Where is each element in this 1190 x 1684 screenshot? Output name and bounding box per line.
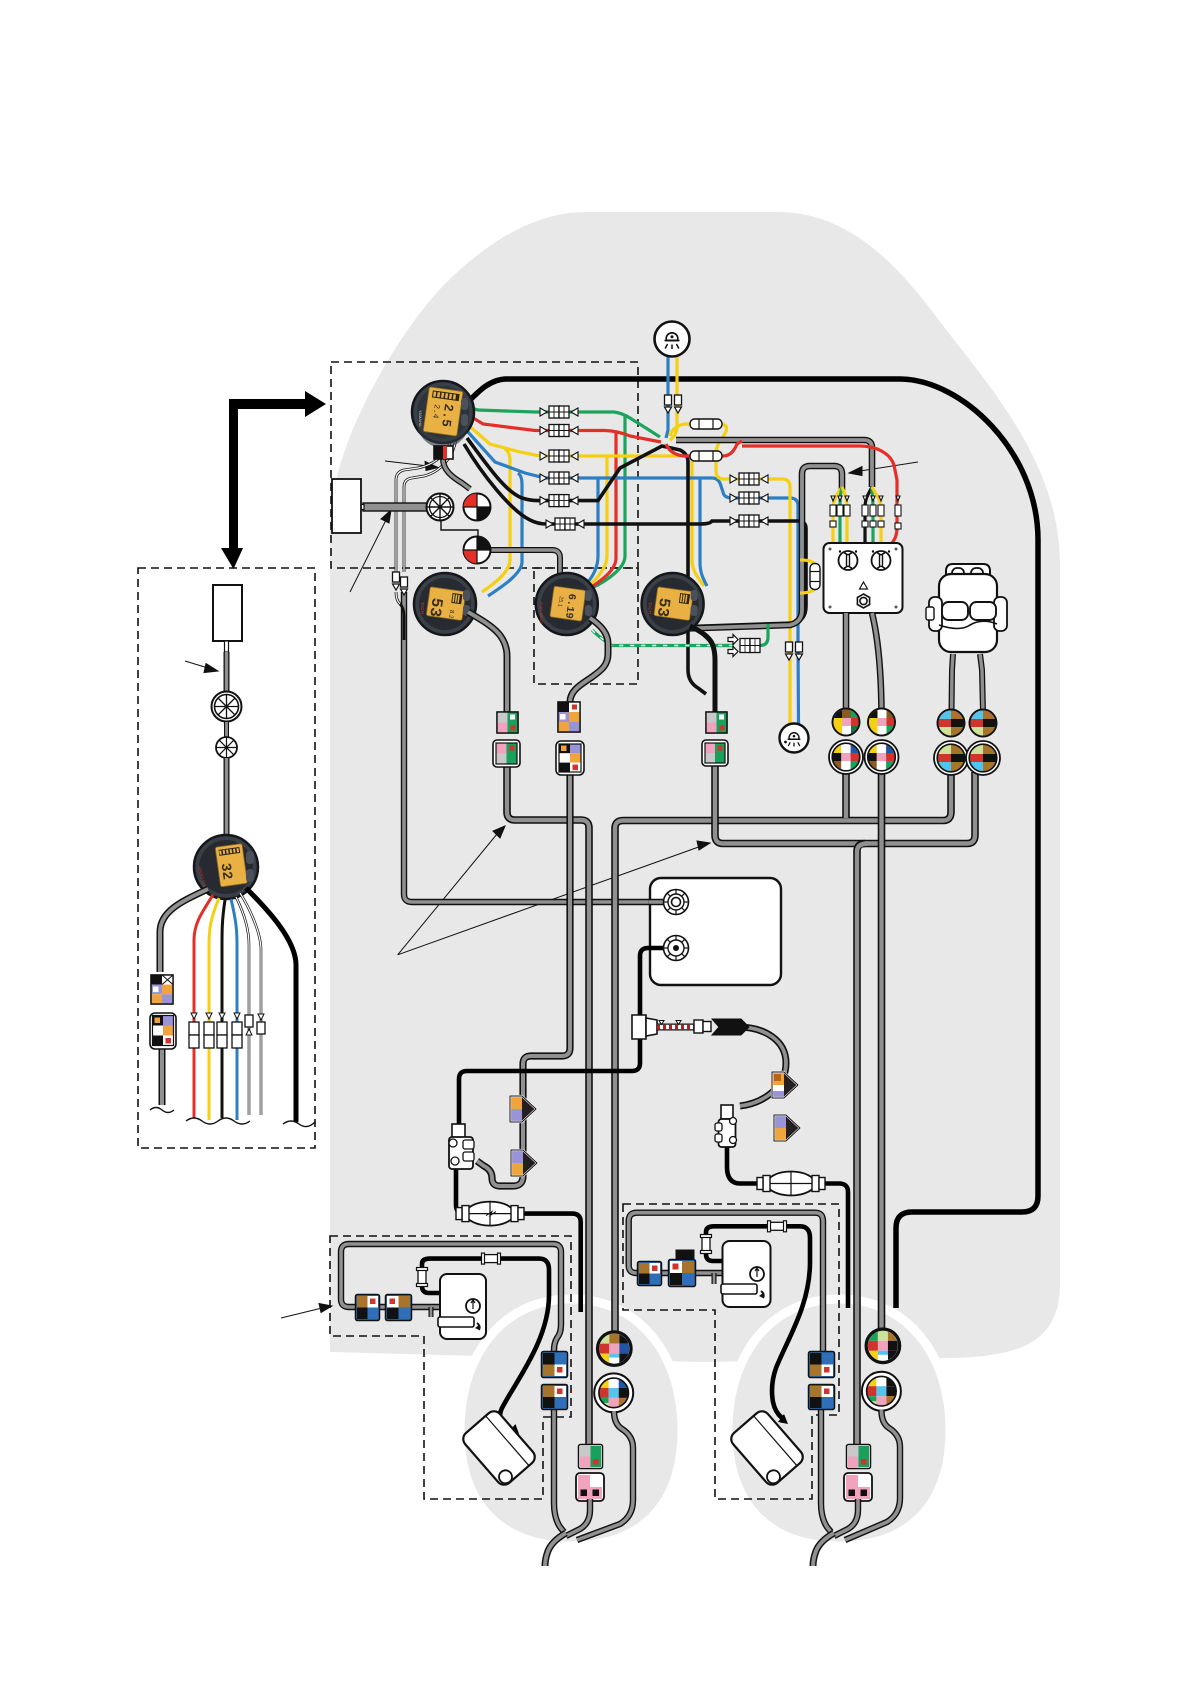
oil line connector horizontal (right) xyxy=(768,1221,787,1232)
gray wire from fuse holder to fuel gauge xyxy=(490,550,560,576)
right water separating fuel filter xyxy=(715,1105,737,1147)
left oil tank harness loop xyxy=(341,1244,561,1352)
annotation arrow to left oil box xyxy=(281,1308,322,1318)
left engine round connector R2 (ringed) xyxy=(594,1373,633,1412)
striped fuel hose xyxy=(657,1020,711,1033)
right R2 harness to bundle xyxy=(845,1410,900,1540)
fuses on main switch fans xyxy=(830,496,901,529)
annotation arrows to engine harnesses xyxy=(398,834,497,955)
light switch 1 xyxy=(655,322,690,357)
left oil tank xyxy=(431,1274,486,1339)
svg-text:53: 53 xyxy=(425,597,445,619)
triangle pointer B (purple/orange) xyxy=(511,1150,537,1176)
gray harness from gauge xyxy=(160,889,208,972)
detail connector block A xyxy=(151,975,173,1004)
tachometer 2 gauge xyxy=(642,573,704,635)
gauge representation white rect xyxy=(213,585,242,641)
wire blue drop to fuel gauge xyxy=(586,478,598,584)
fuel line: left filter to primer bulb to engine stub xyxy=(456,1168,581,1312)
oil line connector horizontal (left) xyxy=(482,1253,501,1264)
left R2 harness to bundle xyxy=(577,1411,633,1540)
left engine bulge xyxy=(460,1299,682,1546)
fuse bullet on light switch yellow wire xyxy=(675,395,682,413)
stop-switch-1 harness run to left engine (C3 to R1) xyxy=(615,770,951,1334)
left SQP harness to bundle xyxy=(566,1499,590,1536)
yellow loop through vertical capsule at main switch xyxy=(800,560,815,593)
right battery xyxy=(728,1408,806,1488)
bullet connector on speedometer sender wire 2 xyxy=(401,577,408,595)
tachometer2 harness run (gauge3 via y843 corridor, C4 branch) to right engine xyxy=(715,764,975,844)
left oil connector SQ2 xyxy=(386,1295,412,1321)
stem xyxy=(225,641,229,652)
fuel gauge harness to connector xyxy=(570,618,608,702)
main switch right fan: black green yellow red xyxy=(865,487,872,544)
colored wires fan from gauge xyxy=(194,888,296,1122)
multifunction gauge detail dashed box xyxy=(138,568,315,1148)
fuse bullet on light switch 2 blue wire xyxy=(796,642,803,660)
fuel Y joint to engines xyxy=(712,1019,749,1035)
wire yellow drop to fuel gauge xyxy=(588,456,607,586)
right oil tank xyxy=(714,1241,771,1307)
fuel line: right filter to primer bulb to engine stub xyxy=(727,1147,848,1308)
fuse holder big xyxy=(212,692,242,722)
left engine square connectors SQG/SQP xyxy=(579,1445,603,1469)
fuse holder with X (speedo feed) xyxy=(427,494,454,521)
wire blue continuation to light switch 2 xyxy=(700,478,799,724)
left battery xyxy=(460,1408,538,1488)
right primer bulb xyxy=(757,1172,825,1196)
triangle pointer A (orange/purple) xyxy=(510,1096,536,1122)
left engine bundle xyxy=(545,1533,566,1566)
capsule connector at main switch xyxy=(810,564,820,590)
fuse holder small xyxy=(216,737,237,758)
big black arrow console-to-detail xyxy=(221,391,326,569)
main-switch-1 harness (C1 stub to corridor) xyxy=(842,770,850,818)
yellow capsule festoon xyxy=(670,424,723,436)
right engine bulge xyxy=(728,1299,950,1546)
gray tube xyxy=(224,652,230,692)
wire to gauge xyxy=(224,758,230,838)
wire green (speedo row to convergence) xyxy=(471,408,660,437)
helm round connector C1 mate xyxy=(829,740,863,774)
oil line connector vertical (right) xyxy=(701,1235,712,1254)
stop switch wires xyxy=(952,654,954,712)
left oil connectors SQ3/SQ4 on down harness xyxy=(542,1352,568,1378)
tach2 black harness down xyxy=(690,626,715,714)
right oil connector SQ1b xyxy=(638,1262,662,1286)
right engine round connector R1b xyxy=(865,1328,900,1363)
wavy break lines xyxy=(150,1108,315,1127)
green wire double bullet connector xyxy=(728,635,760,657)
bracket between fuse holders xyxy=(441,521,478,536)
tachometer 1 gauge xyxy=(414,573,476,635)
fuel gauge connector pair xyxy=(558,702,580,732)
capsule connector on yellow extension xyxy=(690,419,722,429)
triangle pointer C (orange/white/purple) xyxy=(772,1072,798,1098)
fuel pickup fitting xyxy=(664,936,689,961)
tachometer1 harness from gauge xyxy=(468,612,507,714)
wire yellow drop to tach1 xyxy=(482,449,510,592)
svg-text:8.2: 8.2 xyxy=(447,610,454,620)
wire yellow row xyxy=(468,425,692,456)
speedometer fuel sender wire (gray) xyxy=(404,592,672,902)
red wire from harness right side down to main switch xyxy=(742,446,897,544)
fuse bullet on light switch 2 yellow wire xyxy=(786,642,793,660)
boat hull silhouette xyxy=(330,212,1060,1362)
left primer bulb xyxy=(456,1202,524,1226)
stop switch round connector C3 mate xyxy=(934,741,968,775)
main switch harness drops xyxy=(843,613,850,712)
right oil tank dashed box xyxy=(623,1204,839,1499)
speedometer buzzer xyxy=(434,446,453,459)
helm round connector C1 (main sw 1) xyxy=(833,709,861,736)
svg-text:TACH: TACH xyxy=(420,602,425,614)
left water separating fuel filter xyxy=(449,1124,474,1169)
wire red drop to fuel gauge xyxy=(590,432,616,588)
helm round connector C2 mate xyxy=(865,740,899,774)
fuel tank xyxy=(650,878,781,985)
pitot white box xyxy=(332,479,361,533)
speedometer gauge xyxy=(412,381,474,448)
wire yellow drop to tach2 + loop to bullet row xyxy=(692,456,704,586)
wire black row 1 (to convergence chevron) xyxy=(467,438,706,694)
bullet connector on speedometer sender wire 1 xyxy=(393,572,400,590)
right oil tank harness loop xyxy=(629,1213,823,1352)
left oil line black with battery cable xyxy=(422,1259,549,1430)
wire blue drop to tach2 xyxy=(700,478,707,586)
right oil connectors SQ3b/SQ4b xyxy=(809,1352,835,1378)
left oil connector SQ1 xyxy=(356,1295,380,1321)
light switch 2 xyxy=(780,724,809,753)
svg-text:FUEL MGMT: FUEL MGMT xyxy=(539,602,543,625)
fuse holder 2 red/black quadrant xyxy=(464,537,491,564)
annotation arrow to pitot tube (console) xyxy=(350,520,386,592)
twin white wire from speedometer down-left xyxy=(396,430,452,572)
fuel management gauge xyxy=(536,573,598,635)
pitot tube xyxy=(363,503,429,511)
svg-text:YAMAHA: YAMAHA xyxy=(418,410,423,427)
stop switch round connector C3 xyxy=(938,710,965,737)
speedometer buzzer harness xyxy=(443,459,470,489)
main switch panel xyxy=(824,543,903,613)
wire blue drop to tach1 xyxy=(488,473,522,596)
right engine square connectors SQGb/SQPb xyxy=(847,1445,871,1469)
fuel joint fitting on tank line xyxy=(632,1015,657,1039)
wire blue row xyxy=(468,432,700,478)
fuel management gauge harness to water separator xyxy=(477,772,570,1186)
multifunction gauge xyxy=(194,835,258,899)
green wire tach2 to bullet and up xyxy=(698,624,768,646)
main black harness wire (helm to starboard side down) xyxy=(470,379,1038,1308)
annotation arrow in detail box xyxy=(185,661,208,668)
right oil connector SQ2b xyxy=(669,1250,696,1287)
wire black row 2 (to tach2 feed bundle) xyxy=(464,444,806,627)
svg-text:53: 53 xyxy=(653,597,673,619)
wire red (speedo row to convergence) xyxy=(470,416,661,442)
main harness gray from convergence to main switch xyxy=(676,440,872,487)
bullet fuses on detail wires xyxy=(189,1013,265,1048)
right engine round connector R2b (ringed) xyxy=(862,1372,901,1411)
oil line connector vertical (left) xyxy=(417,1268,428,1287)
wire gray harness from main switch fan up-over to tach2 xyxy=(672,466,842,629)
tachometer1 harness run to left engine xyxy=(507,764,589,1449)
stop switch round connector C4 xyxy=(970,710,997,737)
right SQPb harness to bundle xyxy=(834,1499,858,1536)
svg-text:32: 32 xyxy=(217,862,235,881)
annotation arrow to buzzer harness xyxy=(385,461,428,466)
wire between fuses xyxy=(224,722,229,737)
red capsule festoon xyxy=(666,441,742,456)
capsule connector on red extension xyxy=(690,451,722,461)
engine stop switch xyxy=(926,564,1007,712)
triangle pointer D (purple/orange) xyxy=(774,1115,800,1141)
fuel management gauge dashed box xyxy=(534,568,638,684)
right engine bundle xyxy=(813,1533,834,1566)
annotation arrow to stop switch harness xyxy=(860,462,918,471)
right oil line black with battery cable xyxy=(706,1226,810,1418)
wire yellow from capsule to bullet row to light switch 2 xyxy=(716,424,790,724)
tach2 connector pair xyxy=(706,712,727,733)
annotation arrows (thin) xyxy=(185,461,918,1318)
fuel gauge sender fitting xyxy=(664,890,689,915)
stop switch round connector C4 mate xyxy=(966,741,1000,775)
bullet connector rows after speedometer xyxy=(540,406,768,530)
fuel hose: Y-joint to right filter xyxy=(738,1027,786,1106)
green dashed wire from fuel gauge xyxy=(592,630,734,646)
tach1 connector pair xyxy=(497,712,518,733)
fuse holder red/black quadrant xyxy=(464,494,491,521)
main switch left fan: yellow green yellow xyxy=(833,487,842,544)
fuel line: tank pickup to joint and left filter xyxy=(459,948,674,1126)
detail connector block B xyxy=(150,1013,176,1049)
fuse bullet on light switch blue wire xyxy=(665,395,672,413)
wire green drop to fuel gauge xyxy=(592,414,625,588)
branch of y843 corridor down to right engine xyxy=(857,844,865,1450)
console detail dashed box xyxy=(331,362,638,568)
left engine round connector R1 xyxy=(597,1331,632,1366)
svg-text:TACH: TACH xyxy=(648,602,653,614)
main-switch-2 harness (C2) to right engine connector xyxy=(878,770,886,1332)
left oil tank dashed box xyxy=(330,1236,571,1499)
helm round connector C2 (main sw 2) xyxy=(868,709,896,736)
light switch 1 wires blue/yellow xyxy=(666,357,668,438)
